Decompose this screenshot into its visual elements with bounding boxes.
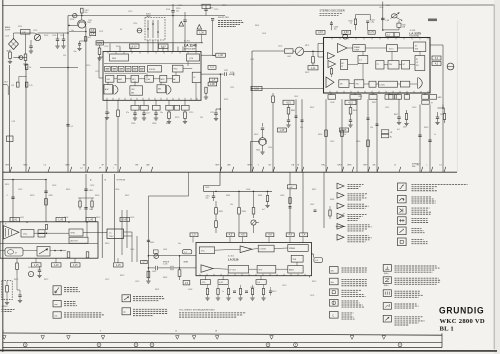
svg-text:ST: ST [416, 59, 418, 61]
LA1140 if amp block [117, 75, 125, 82]
series capacitor C221 on y74 wire [224, 72, 226, 76]
enclosure inner divider [0, 243, 98, 245]
LA1140 pulse counter block [148, 66, 162, 72]
IC451 top pin stubs [192, 237, 194, 243]
svg-text:1:2: 1:2 [359, 60, 362, 62]
svg-text:C219: C219 [189, 112, 193, 114]
divider connector ticks row [10, 167, 12, 172]
wire x205 bus to box [201, 35, 203, 43]
svg-text:1,25: 1,25 [11, 85, 14, 87]
cap mark on x68 wire [66, 124, 69, 126]
legend triangle symbol 3 [337, 203, 344, 209]
svg-text:C468: C468 [188, 289, 192, 291]
svg-text:C470: C470 [282, 285, 286, 287]
wire head to trimmer [13, 33, 15, 39]
svg-text:R414: R414 [318, 134, 322, 136]
x290 wire continue [289, 189, 291, 234]
wire y233 in enclosure [34, 232, 69, 234]
label box above trimmer [153, 250, 158, 253]
label box L201 [21, 30, 31, 35]
inline pot circle on rail [73, 13, 77, 17]
LA1140 internal row1 cell6 [139, 66, 145, 71]
value boxes row y263 b2 [52, 263, 62, 267]
svg-text:GRUNDIG: GRUNDIG [439, 306, 484, 316]
amplifier enclosure box lower-left [0, 222, 98, 258]
svg-text:L,25: L,25 [280, 130, 285, 132]
legend tape speed text [64, 287, 78, 289]
resistor R409 above IC401 right [397, 23, 401, 27]
equalizer box in enclosure [21, 230, 34, 237]
LA1140 af block [172, 75, 179, 82]
value box x303 [300, 233, 308, 237]
x303 wire [302, 172, 304, 233]
legend square symbol S2-5 [330, 312, 339, 319]
svg-text:R473: R473 [120, 275, 124, 277]
dashed component box lower-left [2, 281, 12, 300]
svg-text:L,45: L,45 [59, 220, 64, 222]
LA1140 det block [131, 75, 139, 82]
value box right of IC451 [314, 258, 323, 263]
svg-text:R411: R411 [372, 102, 376, 104]
IC201 inner pin stubs bottom [106, 98, 108, 101]
svg-text:SPDL: SPDL [71, 233, 76, 235]
svg-text:C416: C416 [356, 141, 360, 143]
MPX coil circle [295, 47, 303, 55]
svg-text:MP2: MP2 [24, 165, 28, 167]
legend square text S2-5 [342, 312, 354, 314]
capacitor C209 [78, 43, 81, 45]
extra vbox pair A under decoder [278, 128, 287, 132]
resistor on x326 [325, 130, 328, 137]
top-right scan mark [428, 19, 437, 22]
svg-text:4,1V: 4,1V [318, 32, 323, 34]
svg-text:R4: R4 [269, 165, 271, 167]
long vertical x114.5 [114, 174, 116, 262]
svg-text:4(kHz): 4(kHz) [384, 285, 389, 287]
capacitor C409 [287, 119, 290, 121]
cap C451 on rail [212, 195, 215, 197]
warning triangle 2 [197, 25, 202, 30]
long vertical wires to divider under decoder [295, 99, 297, 172]
svg-text:R465: R465 [258, 195, 262, 197]
legend square text S3-1 [395, 265, 437, 267]
resistor column x239 [238, 208, 241, 215]
svg-text:R474: R474 [155, 289, 159, 291]
svg-text:4,15: 4,15 [54, 265, 59, 267]
cap pair C418 [405, 114, 407, 120]
svg-text:9: 9 [100, 331, 101, 333]
svg-text:15: 15 [175, 331, 177, 333]
svg-text:R410: R410 [353, 110, 357, 112]
value box row y233 a [190, 233, 198, 237]
double value box above IC401 right [386, 33, 394, 37]
svg-text:SW: SW [415, 49, 418, 51]
svg-text:L,06: L,06 [199, 32, 204, 34]
svg-text:C210: C210 [128, 11, 132, 13]
capacitor C210 top [172, 4, 174, 11]
svg-text:C405: C405 [379, 7, 383, 9]
LA3375 input amp triangle big [338, 44, 348, 53]
svg-text:R203: R203 [44, 35, 48, 37]
svg-text:C201: C201 [5, 36, 9, 38]
LA3375 mono stereo switch block [341, 60, 348, 70]
IC201 top pin stubs [109, 44, 111, 52]
svg-text:1u: 1u [222, 291, 224, 293]
svg-text:RL: RL [390, 136, 392, 138]
svg-text:R468: R468 [330, 199, 334, 201]
IC451 opamp triangle bottom [201, 265, 213, 273]
IC451 outline tone-volume IC [196, 243, 312, 276]
svg-text:GND: GND [438, 97, 443, 99]
left page border [2, 0, 4, 352]
svg-text:1k: 1k [344, 134, 346, 136]
T402 base wire [251, 141, 259, 143]
svg-text:1,7V: 1,7V [369, 32, 374, 34]
svg-text:PULSE: PULSE [149, 69, 156, 71]
legend square text S2-3 [342, 289, 362, 291]
second box in enclosure [69, 237, 88, 243]
svg-text:C472: C472 [105, 279, 109, 281]
svg-text:R460: R460 [105, 243, 109, 245]
LA3375 vco block [387, 45, 398, 52]
legend square symbol S3-4 [383, 303, 391, 310]
svg-text:10u: 10u [90, 209, 93, 211]
tiny value box 1,7 [141, 260, 148, 263]
svg-text:R451: R451 [219, 211, 223, 213]
switch contacts inside dashed box [147, 20, 149, 38]
wire IC201 to right y55 [201, 54, 215, 56]
wire x9.5 long vertical [9, 65, 11, 172]
cap on x13 [11, 196, 14, 198]
svg-text:R401: R401 [255, 25, 259, 27]
legend triangle text 2 [348, 193, 368, 195]
svg-text:4u7: 4u7 [262, 209, 265, 211]
resistor R206 on emitter wire [84, 37, 87, 41]
wire x17 to components [16, 274, 18, 290]
svg-text:AUTOST: AUTOST [71, 239, 79, 242]
svg-text:C412: C412 [385, 107, 389, 109]
LA1140 internal row1 cell2 [112, 66, 118, 71]
svg-text:C466: C466 [280, 195, 284, 197]
svg-text:R456: R456 [95, 195, 99, 197]
components on x46 [44, 190, 47, 192]
value boxes row above IC401 b3 [368, 30, 375, 34]
legend square symbol S2-2 [330, 278, 339, 285]
rail below divider left [3, 179, 46, 181]
LA3375 small triangle 1 [328, 53, 335, 60]
value boxes row above IC401 b1 [316, 30, 325, 34]
svg-text:4,15: 4,15 [348, 103, 353, 105]
svg-text:C460: C460 [130, 249, 134, 251]
svg-text:ZF: ZF [99, 168, 101, 170]
cap on x86 [84, 188, 87, 190]
svg-text:C453: C453 [52, 185, 56, 187]
svg-text:WKC 2800 VD: WKC 2800 VD [440, 318, 485, 325]
bottom band lower line [3, 347, 442, 349]
legend triangle text 1 [348, 183, 364, 185]
wire IC201 ratio out y74 [201, 73, 234, 75]
value box 6.1V left [130, 44, 140, 48]
MPX output wire y88.5 [252, 88, 324, 90]
svg-text:C462: C462 [152, 271, 156, 273]
svg-text:C217: C217 [146, 113, 150, 115]
svg-text:R452: R452 [242, 211, 246, 213]
svg-text:R453: R453 [30, 195, 34, 197]
legend triangle symbol 4 [337, 213, 344, 219]
svg-text:KOPF: KOPF [5, 29, 11, 31]
svg-text:10u: 10u [71, 30, 74, 32]
bottom band top line [3, 333, 442, 335]
component cluster x78-92 y200 [79, 201, 81, 207]
IC451 internal wires [215, 249, 241, 250]
legend square text S1-1 [412, 184, 468, 186]
svg-text:4,15: 4,15 [34, 265, 39, 267]
wire loop above IC401 [356, 14, 371, 16]
svg-text:R467: R467 [312, 189, 316, 191]
L-shaped route from divider x220 [219, 172, 221, 185]
svg-text:1k: 1k [29, 67, 31, 69]
svg-text:LOGIC: LOGIC [380, 84, 386, 86]
LA3375 small triangle 2 [328, 61, 336, 68]
svg-text:C473: C473 [135, 281, 139, 283]
bottom band mid line [3, 341, 442, 343]
LA3375 internal wires [347, 47, 353, 49]
svg-text:L,41: L,41 [13, 220, 18, 222]
legend symbol box 3 [53, 312, 61, 318]
svg-text:R413: R413 [254, 134, 258, 136]
svg-text:C207: C207 [99, 31, 103, 33]
svg-text:C413: C413 [412, 107, 416, 109]
components right of rail [266, 196, 268, 202]
LA3375 resistor ladder left [330, 69, 332, 75]
wire x212.6 into L06 box [212, 20, 214, 55]
svg-text:MP7: MP7 [364, 165, 368, 167]
svg-text:L,25: L,25 [342, 130, 347, 132]
trimmer RT401 [391, 14, 397, 18]
LA1140 internal REF block [110, 54, 129, 61]
svg-text:1: 1 [30, 274, 31, 276]
capacitor C405 on supply wire [381, 17, 385, 19]
IC201 top area connection wires [147, 40, 149, 52]
resistor inside dashed box [6, 286, 9, 293]
IC451 top right block [288, 245, 308, 252]
svg-text:C211: C211 [95, 71, 99, 73]
legend square symbol S1-5 [398, 227, 407, 235]
resistor column x216 r1 [215, 208, 218, 215]
wire x68 vertical to divider [67, 16, 69, 173]
lower enclosure resistor 1 [67, 252, 70, 258]
lower enclosure resistor 2 [86, 252, 89, 258]
svg-text:C214: C214 [133, 23, 137, 25]
junction wire y57.6 left [13, 57, 26, 59]
legend square text S2-2 [342, 279, 368, 281]
component small box on x9 wire [7, 136, 14, 142]
svg-text:T201: T201 [87, 22, 91, 24]
transistor T201 [78, 20, 86, 28]
+UB label box [288, 185, 297, 189]
legend square symbol S3-3 [383, 290, 391, 297]
svg-text:1,25: 1,25 [29, 85, 32, 87]
IC451 lf out block [228, 266, 248, 274]
svg-text:C401: C401 [262, 33, 266, 35]
value box row y233 c [239, 233, 247, 237]
wire T201 base left [69, 24, 78, 26]
svg-text:47u: 47u [85, 12, 88, 14]
svg-text:O: O [124, 311, 126, 314]
legend square text S3-4 [395, 303, 417, 305]
svg-text:6,1V: 6,1V [132, 46, 137, 48]
resistor R408 above IC401 [354, 19, 356, 25]
meter circle symbol [28, 271, 33, 276]
left exit curve [3, 85, 8, 95]
right connector circle [447, 63, 454, 70]
warning triangle 1 [179, 22, 184, 27]
svg-text:NF-R: NF-R [338, 165, 343, 167]
MPX series box [285, 49, 294, 53]
LA3375 mid block 2 [388, 61, 399, 70]
svg-text:LIM: LIM [107, 79, 110, 81]
svg-text:SPAN: SPAN [184, 261, 189, 264]
svg-text:L451: L451 [20, 217, 24, 219]
svg-text:C218: C218 [152, 123, 156, 125]
value boxes row above IC401 b2 [342, 30, 351, 34]
right page edge [493, 5, 495, 350]
LA1140 internal QTS block [187, 54, 200, 61]
svg-text:10u: 10u [160, 112, 163, 114]
LA1140 internal wires [105, 72, 146, 74]
IC451 opamp triangle top [240, 246, 252, 253]
capacitor C408 above IC401 [330, 21, 332, 23]
svg-text:R459: R459 [96, 217, 100, 219]
long vertical pair x122 x127 [121, 210, 123, 255]
junction dots enclosure top [26, 221, 28, 223]
svg-text:C464: C464 [246, 189, 250, 191]
svg-text:10u: 10u [334, 29, 337, 31]
svg-text:C402: C402 [278, 46, 282, 48]
legend triangle symbol 6 [337, 235, 344, 241]
svg-text:C455: C455 [90, 185, 94, 187]
junction marks y67 [40, 67, 78, 69]
main horizontal divider wire [3, 171, 457, 173]
stub right top of IC to rail [195, 44, 197, 49]
legend square symbol S1-1 [398, 183, 407, 191]
legend triangle symbol 2 [337, 193, 344, 199]
IC451 treble block [291, 255, 303, 262]
svg-text:FB-CR-TEIL: FB-CR-TEIL [218, 17, 230, 19]
svg-text:R470: R470 [272, 291, 276, 293]
band connector triangles [3, 336, 7, 340]
LA1140 quad det block [145, 75, 154, 82]
wire enclosure to TDA box [83, 232, 107, 234]
IC401 inner pin stubs bottom [329, 91, 331, 93]
svg-text:-EQ-: -EQ- [23, 234, 28, 236]
stacked small boxes in enclosure [38, 230, 45, 233]
svg-text:VCO: VCO [389, 48, 394, 50]
svg-text:LF OUT: LF OUT [230, 269, 237, 271]
svg-text:ST: ST [431, 103, 433, 105]
legend triangle symbol 5 [337, 224, 344, 230]
capacitor C414 above IC401 [366, 20, 369, 22]
svg-text:NF-L: NF-L [322, 165, 326, 167]
resistor R201 [9, 52, 12, 59]
resistor column x253 [252, 208, 255, 215]
svg-text:BL 1: BL 1 [440, 326, 455, 333]
end tick y74 wire [233, 73, 235, 76]
cap pair C417 [397, 116, 400, 118]
svg-text:1k8: 1k8 [402, 26, 405, 28]
svg-text:18: 18 [215, 331, 217, 333]
wire x46 down to enclosure [45, 180, 47, 223]
LA1140 internal bus wire [104, 63, 200, 65]
svg-text:1u: 1u [434, 134, 436, 136]
LA3375 dec block [369, 81, 376, 87]
L-shaped route 2 [188, 172, 190, 196]
svg-text:C204: C204 [60, 35, 64, 37]
legend square symbol S2-1 [330, 267, 339, 274]
legend square symbol S1-4 [398, 217, 407, 225]
LA3375 small triangle 3 [326, 77, 334, 88]
bottom band thick base line [0, 349, 497, 352]
cap pair C419 [436, 116, 439, 118]
resistor column x216 r2 [215, 221, 218, 228]
extra cap on x86 lower [84, 207, 87, 209]
legend square symbol S1-2 [398, 195, 407, 203]
value box L06 right of IC201 [216, 53, 226, 57]
value box below MPX [308, 66, 318, 70]
svg-text:10k: 10k [370, 127, 373, 129]
svg-text:LA 3375: LA 3375 [409, 31, 421, 35]
svg-text:C411: C411 [358, 96, 362, 98]
legend square text S1-2 [412, 196, 432, 198]
IC201 inner pin stubs top [107, 52, 109, 54]
legend triangle text 5 [348, 224, 370, 226]
svg-text:LOUDN: LOUDN [260, 249, 267, 251]
feed wire x148.4 vertical [147, 243, 149, 281]
svg-text:R418: R418 [424, 127, 428, 129]
trimmer C201 [34, 34, 40, 40]
svg-text:L3: L3 [440, 165, 442, 167]
long vertical x102 [101, 174, 103, 258]
cap C215 on x212.6 [211, 18, 214, 20]
svg-text:C408: C408 [330, 102, 334, 104]
wires dropping from TDA area [131, 232, 133, 262]
svg-text:19k: 19k [373, 165, 376, 167]
LA1140 am osc mixer block [130, 86, 143, 95]
spindel box in enclosure [69, 229, 83, 236]
LA1140 agc block [104, 85, 113, 94]
cap on x420 x430 [418, 134, 421, 136]
svg-text:47n: 47n [107, 113, 110, 115]
svg-text:R451: R451 [5, 184, 9, 186]
svg-text:C203: C203 [52, 35, 56, 37]
bottom band right edge [441, 333, 443, 347]
preamp triangle hatched [4, 226, 20, 239]
IC401 left pin stubs [318, 43, 324, 45]
legend col2 symbol box 1 [122, 295, 131, 302]
ground R202 [23, 63, 27, 65]
feed wire y267.9 to IC451 [148, 267, 196, 269]
value box at end of bus [197, 31, 206, 35]
svg-text:R464: R464 [226, 195, 230, 197]
IC201 bottom pin box 2 [140, 105, 148, 110]
svg-text:47n: 47n [126, 112, 129, 114]
node wire y33 bus [38, 32, 69, 34]
wire x262 from T402 top [262, 130, 264, 138]
tape head TC201 [9, 39, 19, 50]
svg-text:C469: C469 [250, 287, 254, 289]
wire x13 down to enclosure [12, 180, 14, 223]
legend square text S1-3 [412, 207, 430, 209]
